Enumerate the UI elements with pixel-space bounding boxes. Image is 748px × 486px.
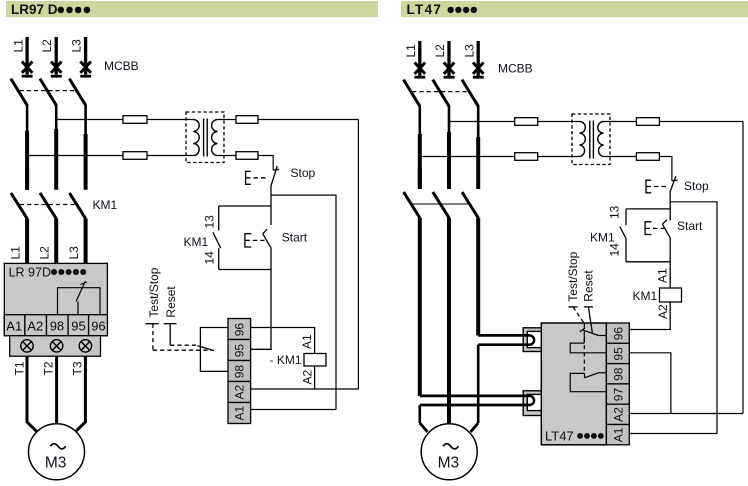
wire secondary top to fuse F3	[218, 119, 236, 121]
svg-text:A1: A1	[611, 427, 625, 442]
svg-text:LT47: LT47	[545, 429, 574, 444]
contactor KM1 pole 1	[11, 168, 27, 263]
LT47 terminal 95	[606, 343, 629, 363]
svg-text:Start: Start	[677, 219, 703, 233]
wire L1 breaker to KM1 right	[418, 106, 421, 135]
svg-text:A2: A2	[611, 407, 625, 422]
wire L2 breaker to KM1 right	[448, 106, 451, 133]
disconnect fuse symbol L3	[80, 62, 91, 73]
svg-text:96: 96	[91, 319, 105, 334]
LT47 terminal A1	[606, 425, 629, 445]
wire control tap from L1	[27, 155, 123, 157]
wire secondary top to fuse right	[604, 121, 637, 123]
transformer secondary winding right	[598, 122, 604, 157]
circuit breaker pole 2 right	[433, 80, 449, 107]
wire 96 to KM1 coil A1	[251, 328, 315, 354]
transformer core right	[589, 121, 591, 159]
transformer core	[203, 119, 205, 157]
svg-text:L1: L1	[404, 44, 418, 58]
svg-text:98: 98	[611, 367, 625, 381]
svg-text:L2: L2	[40, 39, 54, 53]
wire L3 incomer	[84, 37, 87, 75]
Stop actuator right	[646, 180, 668, 193]
svg-text:KM1: KM1	[93, 198, 118, 212]
svg-text:M3: M3	[438, 454, 460, 471]
svg-text:98: 98	[50, 319, 64, 334]
terminal bar L3	[80, 75, 91, 78]
svg-text:Start: Start	[282, 231, 308, 245]
wire coil A2 to terminal 96 right	[629, 302, 670, 330]
wire L1 sensor return down	[418, 405, 421, 423]
wire L1 bend to motor right	[420, 423, 428, 432]
svg-text:Test/Stop: Test/Stop	[566, 251, 580, 301]
wire Start to coil right	[669, 262, 671, 288]
Start actuator right	[645, 222, 664, 235]
svg-text:A2: A2	[233, 384, 247, 399]
svg-text:A2: A2	[656, 304, 670, 319]
svg-text:95: 95	[71, 319, 85, 334]
wire L1 breaker to KM1	[26, 105, 29, 132]
Start actuator	[245, 234, 265, 247]
CT sensor 2	[50, 340, 62, 352]
wire secondary bottom to fuse right	[604, 156, 637, 158]
disconnect fuse symbol L1 right	[415, 63, 426, 74]
KM1 aux blade right	[620, 227, 626, 239]
current sensor top housing	[523, 328, 541, 352]
contactor KM1 pole 3	[69, 193, 85, 264]
terminal bar L2	[51, 75, 62, 78]
wire Stop to Start right	[669, 202, 671, 221]
fuse F1 primary top	[123, 116, 147, 124]
wire L2 incomer	[55, 37, 58, 75]
wire L2 incomer right	[447, 41, 450, 76]
terminal bar L2 right	[444, 76, 455, 79]
svg-text:L3: L3	[70, 39, 84, 53]
svg-text:L1: L1	[11, 39, 25, 53]
relay LR97D body	[4, 263, 107, 335]
header bar LT47	[401, 1, 748, 17]
svg-text:95: 95	[233, 344, 247, 358]
coil KM1 right	[660, 288, 682, 302]
wire L1 incomer right	[418, 41, 421, 76]
terminal A1	[4, 315, 25, 336]
disconnect fuse symbol L1	[22, 62, 33, 73]
svg-text:Stop: Stop	[684, 179, 709, 193]
svg-text:LT47: LT47	[407, 2, 443, 17]
svg-text:98: 98	[233, 365, 247, 379]
svg-text:L2: L2	[37, 246, 51, 260]
pushbutton Stop (NC)	[271, 166, 279, 195]
wire A2 row to right rail	[251, 388, 359, 390]
svg-text:L2: L2	[433, 44, 447, 58]
LT47 terminal 97	[606, 384, 629, 404]
transformer T2 dashed enclosure	[572, 114, 610, 165]
svg-text:96: 96	[233, 323, 247, 337]
transformer primary winding right	[580, 122, 586, 157]
LT47 internal contact 95-96	[570, 328, 606, 353]
svg-text:A1: A1	[6, 319, 22, 334]
svg-text:L3: L3	[462, 44, 476, 58]
wire A1 row to stop branch right	[629, 433, 717, 435]
control terminal strip 96	[228, 319, 251, 340]
wire L3 incomer right	[477, 41, 480, 76]
Reset input symbol	[164, 324, 198, 346]
wire 96-98 bracket left of strip	[200, 328, 228, 372]
CT housing	[10, 336, 101, 357]
svg-text:Reset: Reset	[164, 286, 178, 318]
svg-text:96: 96	[611, 327, 625, 341]
control terminal strip A2	[228, 382, 251, 403]
wire L3 breaker to KM1 right	[477, 106, 480, 138]
svg-text:A1: A1	[656, 268, 670, 283]
svg-text:13: 13	[608, 205, 622, 219]
svg-text:- KM1: - KM1	[270, 353, 302, 367]
svg-text:L3: L3	[67, 246, 81, 260]
wire L2 breaker to KM1	[55, 105, 58, 130]
motor M3 right	[421, 424, 477, 480]
svg-text:A1: A1	[300, 334, 314, 349]
terminal 96	[89, 315, 108, 336]
header bar LR97 D	[6, 1, 378, 17]
terminal 98	[47, 315, 69, 336]
svg-text:MCBB: MCBB	[498, 62, 533, 76]
wire L3 sensor return down	[477, 345, 480, 423]
fuse F2 right	[515, 153, 538, 161]
wire fuse to transformer right	[538, 121, 580, 123]
svg-text:T1: T1	[12, 361, 26, 375]
wire control tap from L2	[56, 119, 123, 121]
svg-text:13: 13	[202, 215, 216, 229]
far right rail down to A2 row	[742, 122, 744, 414]
disconnect fuse symbol L2 right	[444, 63, 455, 74]
disconnect fuse symbol L2	[51, 62, 62, 73]
current sensor bottom housing	[523, 391, 541, 416]
wire branch after Stop to A1 drop right	[670, 202, 717, 434]
transformer primary winding	[193, 120, 199, 156]
wire Start to terminal 95	[251, 270, 271, 350]
control terminal strip A1	[228, 403, 251, 424]
wire fuse F3 to far right rail	[659, 121, 743, 123]
breaker linkage dashed right	[412, 91, 467, 93]
svg-text:M3: M3	[45, 454, 67, 471]
wire A2 row to far right rail	[629, 413, 743, 415]
svg-text:L1: L1	[8, 246, 22, 260]
svg-text:95: 95	[611, 347, 625, 361]
svg-text:LR97 D: LR97 D	[11, 2, 58, 17]
wire 95 right side	[629, 353, 671, 414]
circuit breaker MCBB pole 3	[69, 79, 85, 106]
Stop actuator	[246, 171, 269, 184]
pushbutton Stop right (NC)	[670, 176, 678, 202]
fuse F2 primary bottom	[123, 152, 147, 160]
terminal bar L3 right	[473, 76, 484, 79]
svg-text:Stop: Stop	[291, 166, 316, 180]
Reset input symbol right	[584, 307, 593, 333]
wire T3 to motor	[75, 356, 85, 432]
LT47 terminal A2	[606, 404, 629, 424]
svg-text:A1: A1	[233, 405, 247, 420]
svg-text:T2: T2	[41, 361, 55, 375]
wire fuse F3 to right rail	[258, 119, 358, 121]
KM1 linkage right	[412, 203, 469, 205]
contactor KM1 pole 1 right	[404, 168, 420, 396]
svg-text:T3: T3	[71, 361, 85, 375]
wire coil A2 down	[314, 366, 316, 389]
terminal A2	[25, 315, 47, 336]
svg-text:MCBB: MCBB	[104, 59, 139, 73]
circuit breaker MCBB pole 2	[40, 79, 56, 106]
wire control tap from L2 right	[449, 121, 515, 123]
relay output blade at 95	[198, 346, 215, 351]
LT47 terminal 96	[606, 323, 629, 343]
wire control tap from L1 right	[420, 156, 515, 158]
wire right rail down to A2 row	[357, 120, 359, 390]
disconnect fuse symbol L3 right	[473, 63, 484, 74]
fuse F4	[236, 152, 258, 160]
contactor KM1 pole 2	[40, 193, 56, 264]
fuse F3 right	[636, 118, 659, 126]
wire L1 incomer	[25, 37, 28, 75]
LT47 internal test linkage dashed	[583, 324, 585, 374]
Test/Stop input symbol	[145, 324, 211, 351]
fuse F4 right	[636, 153, 659, 161]
terminal 95	[68, 315, 89, 336]
LT47 internal contact 97-98	[570, 373, 606, 392]
svg-text:A2: A2	[300, 369, 314, 384]
contactor KM1 pole 3 right	[462, 192, 478, 335]
wire T1 to motor	[27, 356, 37, 432]
wire L3 breaker to KM1	[84, 105, 87, 135]
wire fuse F4 to Stop right	[659, 157, 672, 181]
motor M3	[29, 424, 85, 480]
svg-text:14: 14	[202, 251, 216, 265]
wire Stop to Start	[270, 195, 272, 225]
svg-text:KM1: KM1	[633, 289, 658, 303]
terminal bar L1	[22, 75, 33, 78]
svg-text:Reset: Reset	[582, 270, 596, 302]
transformer T1 dashed enclosure	[186, 112, 224, 163]
circuit breaker pole 1 right	[404, 80, 420, 107]
svg-text:LR 97D: LR 97D	[9, 265, 51, 279]
svg-text:A2: A2	[27, 319, 43, 334]
svg-text:97: 97	[611, 388, 625, 402]
svg-text:14: 14	[608, 243, 622, 257]
coil KM1	[304, 354, 326, 367]
wire L1 through bottom sensor	[420, 395, 530, 398]
svg-text:KM1: KM1	[590, 230, 615, 244]
contact KM1 13-14 branch right	[626, 208, 670, 210]
CT sensor 1	[21, 340, 33, 352]
transformer secondary winding	[212, 120, 218, 156]
relay LT47 body	[541, 323, 606, 445]
relay internal contact 95-96-98	[58, 281, 101, 315]
wire fuse to transformer bottom right	[538, 156, 580, 158]
wire fuse F4 to Stop	[258, 156, 273, 171]
circuit breaker pole 3 right	[462, 80, 478, 107]
fuse F1 right	[515, 118, 538, 126]
wire branch after Stop to A1 drop	[271, 195, 336, 409]
pushbutton Start right (NO)	[662, 220, 670, 262]
control terminal strip 98	[228, 361, 251, 382]
wire secondary bottom to fuse F4	[218, 155, 236, 157]
KM1 aux contact blade	[213, 232, 221, 248]
control terminal strip 95	[228, 340, 251, 361]
KM1 linkage dashed	[20, 204, 75, 206]
wire L3 bend to motor right	[471, 423, 479, 432]
svg-text:KM1: KM1	[184, 235, 209, 249]
Test/Stop input symbol right	[568, 307, 584, 324]
wire L3 through top sensor	[478, 334, 529, 337]
wire fuse F2 to transformer	[147, 155, 193, 157]
CT sensor 3	[79, 340, 91, 352]
pushbutton Start (NO)	[263, 229, 271, 269]
wire fuse F1 to transformer	[147, 119, 193, 121]
contactor KM1 pole 2 right	[433, 192, 449, 424]
wire T2 to motor	[55, 356, 58, 424]
terminal bar L1 right	[414, 76, 425, 79]
wire A1 row to stop branch	[251, 409, 336, 411]
fuse F3	[236, 116, 258, 124]
contact KM1 13-14 parallel branch	[219, 205, 271, 207]
svg-text:Test/Stop: Test/Stop	[147, 267, 161, 317]
breaker linkage dashed	[20, 90, 75, 92]
circuit breaker MCBB pole 1	[11, 79, 27, 106]
LT47 terminal 98	[606, 364, 629, 384]
